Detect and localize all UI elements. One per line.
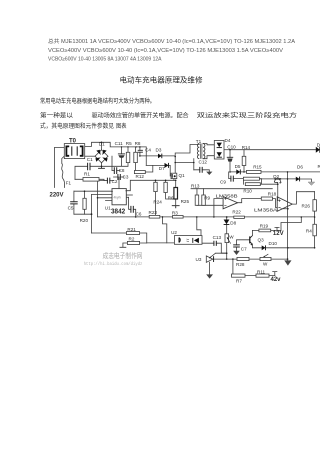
svg-text:R23: R23 bbox=[149, 210, 158, 215]
svg-text:常用电动车充电器根据电路结构可大致分为两种。: 常用电动车充电器根据电路结构可大致分为两种。 bbox=[40, 97, 155, 105]
wire C9 branch bbox=[229, 172, 244, 179]
terminal 12V bbox=[275, 227, 279, 230]
svg-text:T0: T0 bbox=[69, 139, 77, 145]
svg-text:Q2: Q2 bbox=[273, 174, 280, 179]
resistor R25 bbox=[174, 188, 178, 200]
wire R6 leads bbox=[166, 180, 176, 199]
wire U3 cathode line bbox=[214, 253, 288, 259]
svg-text:双运放来实现三阶段充电方: 双运放来实现三阶段充电方 bbox=[197, 111, 298, 119]
diode D9 bbox=[316, 147, 320, 153]
ground at C12 bbox=[206, 172, 212, 175]
resistor R2 bbox=[127, 241, 139, 244]
svg-text:R18: R18 bbox=[268, 191, 277, 196]
junction dots bbox=[84, 142, 316, 260]
diode D5 bbox=[236, 169, 240, 174]
transformer T1 bbox=[197, 144, 204, 159]
resistor R15 bbox=[247, 170, 262, 173]
resistor R4 bbox=[313, 224, 317, 236]
svg-text:R11: R11 bbox=[257, 270, 266, 275]
resistor R26 bbox=[313, 200, 317, 211]
resistor R14 bbox=[242, 156, 246, 165]
wire Q3 collector to R19 bbox=[252, 230, 281, 235]
capacitor C3 bbox=[118, 174, 120, 180]
capacitor C4 bbox=[138, 150, 143, 152]
svg-text:C6: C6 bbox=[136, 211, 142, 216]
wire vcc line from chip bbox=[126, 180, 175, 190]
diode D10 bbox=[262, 245, 266, 250]
wire D3 output to T1 bbox=[162, 145, 200, 174]
wire secondary main line bbox=[230, 171, 320, 173]
capacitor C10 electrolytic bbox=[227, 157, 233, 161]
svg-text:R15: R15 bbox=[253, 164, 262, 169]
capacitor C5 bbox=[70, 202, 78, 204]
svg-text:LM358B: LM358B bbox=[216, 193, 238, 199]
ground main right bbox=[284, 260, 291, 265]
svg-text:C4: C4 bbox=[145, 147, 151, 152]
wire R24 leads bbox=[155, 180, 157, 217]
svg-text:VCBO≥600V 10-40 13005 8A 13007: VCBO≥600V 10-40 13005 8A 13007 4A 13009 … bbox=[48, 57, 162, 63]
ground bar R25 bbox=[172, 206, 179, 208]
wire C5 R20 bottom join bbox=[74, 195, 92, 234]
resistor R23 bbox=[149, 215, 160, 218]
dual diode D4 bbox=[214, 141, 224, 160]
svg-text:D6: D6 bbox=[297, 165, 303, 170]
svg-text:W: W bbox=[263, 262, 268, 267]
svg-text:R10: R10 bbox=[243, 189, 252, 194]
svg-text:C1: C1 bbox=[87, 157, 93, 162]
wire battery divider bbox=[232, 259, 275, 276]
wire D8 branch bbox=[226, 217, 228, 234]
svg-text:R8: R8 bbox=[135, 141, 141, 146]
resistor R8 bbox=[134, 152, 138, 162]
wire T0 top output to rail bbox=[85, 142, 147, 165]
ground after D6 bbox=[308, 182, 315, 185]
chip U1 3842 bbox=[111, 189, 127, 205]
op-amp LM358B bbox=[223, 197, 238, 209]
wire C3 stubs bbox=[114, 177, 125, 189]
svg-text:LM358A: LM358A bbox=[254, 207, 278, 213]
resistor R3 bbox=[173, 216, 184, 219]
wire mains left lead bbox=[54, 148, 64, 188]
wire bridge bottom / negative rail bbox=[75, 158, 128, 180]
resistor R11 bbox=[256, 274, 269, 277]
wire T1 secondary pins to D4 bbox=[203, 144, 214, 159]
svg-text:图表: 图表 bbox=[116, 122, 127, 130]
svg-text:驱动场效应管的单管开关电源。配合: 驱动场效应管的单管开关电源。配合 bbox=[92, 111, 189, 119]
wire C5 leads bbox=[73, 191, 75, 214]
svg-text:R13: R13 bbox=[191, 183, 200, 188]
wire drop to U2 LED bbox=[163, 217, 167, 243]
diode D7 bbox=[165, 163, 169, 168]
diode D6 bbox=[296, 177, 300, 182]
svg-text:12V: 12V bbox=[273, 231, 284, 237]
svg-text:U2: U2 bbox=[171, 230, 177, 235]
capacitor C8 bbox=[114, 167, 116, 174]
resistor R7 bbox=[232, 274, 246, 277]
svg-text:T1: T1 bbox=[196, 139, 202, 144]
svg-text:R21: R21 bbox=[127, 227, 136, 232]
capacitor C1 bbox=[88, 163, 90, 171]
svg-text:R1: R1 bbox=[84, 171, 90, 176]
wire D6 branch bbox=[259, 172, 311, 260]
svg-text:W: W bbox=[229, 235, 234, 240]
wire C2 stubs bbox=[98, 180, 114, 182]
svg-text:R25: R25 bbox=[181, 199, 190, 204]
svg-text:R9: R9 bbox=[204, 196, 210, 201]
wire LM358B plus input bbox=[214, 199, 223, 217]
resistor R21 bbox=[126, 232, 139, 235]
resistor R22 bbox=[234, 216, 245, 218]
svg-text:C8: C8 bbox=[119, 168, 125, 173]
wire Q1 drain line to T1 primary bottom bbox=[175, 159, 194, 170]
wire R4 leads bbox=[314, 217, 316, 248]
svg-text:D4: D4 bbox=[225, 138, 231, 143]
svg-text:C5: C5 bbox=[68, 205, 74, 210]
resistor R18 bbox=[261, 197, 272, 200]
wire R21 bbox=[92, 233, 147, 243]
wire U2 collector from rail bbox=[197, 217, 201, 236]
svg-text:式，其电原理图和元件参数见: 式，其电原理图和元件参数见 bbox=[40, 122, 114, 130]
wire chip left pins bbox=[74, 191, 112, 200]
capacitor C12 bbox=[200, 167, 202, 173]
svg-text:C2: C2 bbox=[112, 179, 118, 184]
wire Q3 emitter to D10 line bbox=[252, 244, 314, 248]
wire opamp B rail bbox=[191, 188, 272, 190]
resistor R5 bbox=[126, 152, 130, 162]
svg-text:C10: C10 bbox=[227, 144, 236, 149]
svg-text:C7: C7 bbox=[241, 247, 247, 252]
wire C8 stubs bbox=[112, 156, 120, 170]
ground bar under bridge bbox=[99, 166, 105, 168]
optocoupler U2 bbox=[174, 236, 202, 245]
svg-text:C9: C9 bbox=[220, 180, 226, 185]
resistor R1 bbox=[83, 178, 99, 182]
resistor R17 bbox=[245, 183, 260, 186]
svg-text:D1: D1 bbox=[99, 141, 105, 146]
svg-text:C3: C3 bbox=[123, 175, 129, 180]
resistor R12 bbox=[134, 171, 145, 174]
wire left riser to bottom rail bbox=[97, 181, 99, 217]
diode D8 bbox=[224, 220, 230, 225]
svg-text:VCEO≥400V VCBO≥600V 10-40 (Ic=: VCEO≥400V VCBO≥600V 10-40 (Ic=0.1A,VCE=1… bbox=[48, 48, 284, 54]
resistor R19 bbox=[259, 229, 271, 232]
resistor R10 bbox=[243, 177, 259, 180]
wire R14 leads bbox=[243, 150, 245, 172]
svg-text:Q3: Q3 bbox=[258, 237, 265, 242]
svg-text:C13: C13 bbox=[213, 235, 222, 240]
wire T0 bottom output to bridge bbox=[85, 155, 95, 157]
svg-text:F1: F1 bbox=[66, 180, 72, 185]
ground at U3 bbox=[206, 274, 213, 278]
svg-text:4kyrk: 4kyrk bbox=[114, 195, 122, 199]
wire R25 leads bbox=[175, 180, 177, 205]
svg-text:C11: C11 bbox=[115, 141, 124, 146]
bridge rectifier D1 bbox=[95, 150, 108, 163]
wire R5 top stub bbox=[127, 147, 129, 152]
wire D4 output bbox=[224, 149, 230, 151]
svg-text:总共 MJE13001 1A VCEO≥400V VCBO≥: 总共 MJE13001 1A VCEO≥400V VCBO≥600V 10-40… bbox=[48, 38, 296, 45]
wire Q2 base bbox=[277, 183, 279, 201]
wire W1 bottom bbox=[226, 243, 228, 260]
wire U3 anode to ground bbox=[209, 262, 211, 274]
svg-text:R28: R28 bbox=[236, 262, 245, 267]
wire C10 leads bbox=[229, 150, 231, 172]
wire LM358B output to R18 bbox=[238, 199, 278, 208]
fuse F1 bbox=[62, 156, 65, 187]
svg-text:R14: R14 bbox=[242, 145, 251, 150]
svg-text:电动车充电器原理及维修: 电动车充电器原理及维修 bbox=[120, 75, 204, 85]
svg-text:第一种是以: 第一种是以 bbox=[40, 111, 73, 119]
resistor R28 bbox=[237, 257, 249, 260]
svg-text:220V: 220V bbox=[50, 192, 64, 198]
wire C4 to D3 bbox=[140, 147, 158, 156]
wire C11 top stub bbox=[121, 147, 123, 154]
capacitor C7 bbox=[233, 245, 240, 247]
wire Q3 base and C7 bbox=[237, 240, 250, 251]
svg-text:3842: 3842 bbox=[111, 209, 125, 216]
wire D7 to Q1 gate bbox=[169, 165, 172, 176]
svg-text:U3: U3 bbox=[196, 257, 202, 262]
shunt regulator U3 bbox=[206, 253, 215, 262]
capacitor C2 bbox=[107, 178, 109, 184]
bottom rail bbox=[98, 216, 315, 218]
svg-text:http://hi.baidu.com/diydz: http://hi.baidu.com/diydz bbox=[84, 261, 143, 267]
svg-text:Q1: Q1 bbox=[179, 173, 186, 178]
svg-text:R22: R22 bbox=[232, 210, 241, 215]
svg-text:D10: D10 bbox=[269, 241, 278, 246]
wire R12 to vcc and D7 bbox=[145, 165, 164, 172]
transformer T0 bbox=[64, 144, 84, 159]
svg-text:R26: R26 bbox=[302, 204, 311, 209]
resistor R24 bbox=[154, 182, 157, 191]
ground at C7 bbox=[233, 251, 240, 255]
capacitor C6 bbox=[131, 206, 133, 213]
wire feedback box LM358A bbox=[281, 209, 301, 231]
svg-text:D7: D7 bbox=[159, 166, 165, 171]
svg-text:R2: R2 bbox=[129, 236, 135, 241]
wire LM358A output bbox=[292, 192, 314, 204]
wire secondary top rail to D9 bbox=[230, 149, 316, 151]
resistor R6 bbox=[164, 182, 167, 192]
terminal 42v bbox=[273, 272, 277, 276]
mosfet Q1 bbox=[171, 173, 177, 178]
potentiometer W2 bbox=[260, 254, 271, 261]
capacitor C11 electrolytic bbox=[118, 154, 125, 158]
resistor R20 bbox=[83, 198, 86, 209]
svg-text:成志电子制作网: 成志电子制作网 bbox=[103, 251, 143, 260]
wire R1 bbox=[75, 179, 107, 180]
op-amp LM358A bbox=[277, 197, 292, 211]
svg-text:D3: D3 bbox=[156, 148, 162, 153]
wire bridge top stub bbox=[101, 142, 103, 150]
svg-text:C12: C12 bbox=[199, 160, 208, 165]
svg-text:R3: R3 bbox=[172, 210, 178, 215]
wire R20 leads bbox=[84, 191, 86, 214]
diode D3 bbox=[158, 154, 162, 159]
potentiometer W1 bbox=[225, 234, 231, 244]
wire into U2 LED bbox=[147, 242, 175, 244]
wire chip pin5 stub bbox=[126, 194, 132, 196]
wire sampling resistors bbox=[243, 179, 277, 185]
wire R2 with ground bbox=[120, 243, 147, 247]
capacitor C9 bbox=[231, 176, 233, 182]
svg-text:D8: D8 bbox=[230, 221, 236, 226]
svg-text:R12: R12 bbox=[136, 174, 145, 179]
transistor Q2 bbox=[274, 179, 281, 184]
svg-text:42v: 42v bbox=[271, 277, 282, 283]
capacitor C13 bbox=[214, 241, 216, 246]
transistor Q3 bbox=[250, 236, 253, 246]
wire Q1 source bbox=[173, 179, 175, 181]
wire R8 leads bbox=[135, 147, 137, 172]
svg-text:R5: R5 bbox=[126, 141, 132, 146]
svg-text:R24: R24 bbox=[153, 200, 162, 205]
resistor R13 bbox=[195, 195, 199, 205]
svg-text:R6: R6 bbox=[168, 195, 174, 200]
wire R26 leads bbox=[314, 192, 316, 217]
resistor R9 bbox=[202, 195, 206, 205]
svg-text:R20: R20 bbox=[80, 218, 89, 223]
wire chip pin to C6 bbox=[126, 197, 135, 217]
svg-text:R4: R4 bbox=[306, 228, 312, 233]
svg-text:D5: D5 bbox=[235, 164, 241, 169]
wire R13 R9 leads bbox=[197, 189, 223, 206]
wire C12 snubber bbox=[194, 170, 210, 172]
svg-text:R19: R19 bbox=[260, 223, 269, 228]
wire U2 emitter / C13 bbox=[202, 243, 227, 253]
svg-text:R7: R7 bbox=[236, 279, 242, 284]
